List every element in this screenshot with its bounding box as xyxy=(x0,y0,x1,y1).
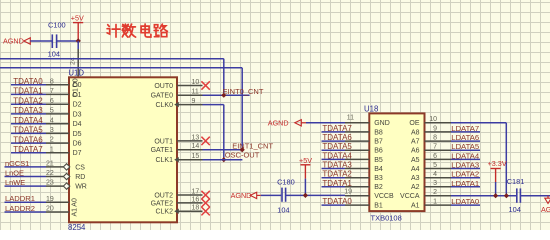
svg-text:A7: A7 xyxy=(411,139,420,146)
svg-text:B7: B7 xyxy=(374,139,383,146)
svg-text:4: 4 xyxy=(433,171,437,178)
svg-text:11: 11 xyxy=(192,89,199,96)
svg-text:D0: D0 xyxy=(73,78,80,87)
svg-text:D4: D4 xyxy=(73,121,82,128)
svg-text:D1: D1 xyxy=(73,88,80,97)
svg-text:VCCA: VCCA xyxy=(400,193,420,200)
svg-text:20: 20 xyxy=(46,206,54,213)
svg-text:EINT1_CNT: EINT1_CNT xyxy=(232,141,273,150)
power port +3.3V xyxy=(488,159,507,196)
svg-text:21: 21 xyxy=(46,161,54,168)
svg-text:3: 3 xyxy=(50,127,54,134)
svg-text:AGND: AGND xyxy=(541,205,550,214)
pin 19 (A0) with net label LADDR1 xyxy=(5,194,79,207)
wire net EINT1_CNT horizontal from left edge xyxy=(0,67,242,69)
pin 11 (GND) wire from AGND xyxy=(268,114,370,127)
wire net EINT1_CNT vertical down to GATE1 xyxy=(241,68,243,150)
svg-text:A1: A1 xyxy=(72,208,79,217)
wire CLK0 right then down to CLK1 xyxy=(203,105,224,160)
svg-text:19: 19 xyxy=(344,189,352,196)
svg-text:CLK0: CLK0 xyxy=(155,102,173,109)
pin (B2) with net label TDATA1 xyxy=(322,179,370,188)
svg-text:17: 17 xyxy=(192,188,200,195)
svg-text:U1D: U1D xyxy=(68,69,84,78)
svg-text:TDATA3: TDATA3 xyxy=(322,161,352,170)
svg-text:CLK1: CLK1 xyxy=(155,157,173,164)
wire +5V junction down to U1D pin 24 xyxy=(77,41,79,78)
junction at GATE1/EINT1_CNT xyxy=(240,147,245,152)
pin 4 (A3) with net label LDATA2 xyxy=(425,170,481,179)
svg-text:EINT0_CNT: EINT0_CNT xyxy=(223,87,264,96)
svg-text:10: 10 xyxy=(429,116,437,123)
svg-text:C100: C100 xyxy=(48,21,66,30)
svg-text:A5: A5 xyxy=(411,157,420,164)
pin 15 (CLK1) xyxy=(155,153,202,164)
svg-text:D3: D3 xyxy=(73,111,82,118)
svg-text:15: 15 xyxy=(192,153,200,160)
pin (B3) with net label TDATA2 xyxy=(322,170,370,179)
junction at C100/+5V/pin24 xyxy=(76,38,81,43)
svg-text:LDATA5: LDATA5 xyxy=(451,142,479,151)
svg-text:OUT0: OUT0 xyxy=(154,83,173,90)
net label EINT1_CNT xyxy=(232,141,273,150)
svg-text:TDATA2: TDATA2 xyxy=(322,170,352,179)
no-ERC marker on GATE2 xyxy=(201,199,209,207)
svg-text:104: 104 xyxy=(509,205,521,214)
pin 23 (WR, active low) with net label LnWE xyxy=(5,178,87,190)
svg-text:D5: D5 xyxy=(73,131,82,138)
pin 21 (CS, active low) with net label nGCS1 xyxy=(5,159,86,171)
pin (B1) with net label TDATA0 xyxy=(322,197,370,206)
pin (B5) with net label TDATA4 xyxy=(322,151,370,160)
svg-text:LADDR1: LADDR1 xyxy=(5,194,35,203)
pin 10 (OUT0) xyxy=(154,79,202,90)
svg-text:6: 6 xyxy=(50,98,54,105)
svg-text:22: 22 xyxy=(46,170,54,177)
svg-text:B2: B2 xyxy=(374,184,383,191)
svg-text:B5: B5 xyxy=(374,157,383,164)
svg-text:23: 23 xyxy=(46,180,54,187)
svg-text:VCCB: VCCB xyxy=(374,193,394,200)
svg-text:GATE1: GATE1 xyxy=(151,147,174,154)
pin (B7) with net label TDATA6 xyxy=(322,133,370,142)
svg-text:A8: A8 xyxy=(411,129,420,136)
svg-text:2: 2 xyxy=(50,137,54,144)
svg-text:LDATA7: LDATA7 xyxy=(451,124,479,133)
svg-text:RD: RD xyxy=(75,174,85,181)
designator U1D xyxy=(68,69,84,78)
wire C181 to right edge xyxy=(520,195,550,197)
net label EINT0_CNT xyxy=(223,87,264,96)
svg-text:GATE0: GATE0 xyxy=(151,93,174,100)
svg-text:TDATA4: TDATA4 xyxy=(13,116,43,125)
value 104 (C180) xyxy=(277,205,289,214)
no-ERC marker on CLK2 xyxy=(201,207,209,215)
pin 9 (CLK0) xyxy=(155,98,202,109)
power port AGND (top left) xyxy=(3,37,30,46)
svg-text:CLK2: CLK2 xyxy=(155,209,173,216)
power port AGND (middle) xyxy=(231,191,257,200)
label C181 xyxy=(507,177,525,186)
power port AGND (right edge, pointing down) xyxy=(541,196,550,214)
title text 计数电路 (red) xyxy=(107,24,167,37)
pin 3 (D5) with net label TDATA5 xyxy=(11,126,82,138)
pin 11 (GATE0) xyxy=(151,89,203,100)
svg-text:8254: 8254 xyxy=(68,223,86,230)
no-ERC marker on OUT1 xyxy=(201,137,209,145)
pin 6 (D2) with net label TDATA2 xyxy=(11,96,82,108)
svg-text:LDATA2: LDATA2 xyxy=(451,170,479,179)
svg-text:GND: GND xyxy=(374,120,390,127)
pin number 24 (vertical) xyxy=(70,57,77,65)
pin 9 (A8) with net label LDATA7 xyxy=(425,124,481,133)
svg-text:TDATA7: TDATA7 xyxy=(322,124,352,133)
svg-text:3: 3 xyxy=(433,180,437,187)
svg-text:14: 14 xyxy=(192,143,200,150)
pin 3 (A2) with net label LDATA1 xyxy=(425,179,481,188)
svg-text:U18: U18 xyxy=(364,105,378,114)
junction at GATE0/EINT0_CNT xyxy=(221,93,226,98)
svg-text:LnWE: LnWE xyxy=(5,178,25,187)
svg-text:TDATA2: TDATA2 xyxy=(13,96,43,105)
svg-text:19: 19 xyxy=(46,196,54,203)
wire GATE0 to EINT0_CNT xyxy=(203,94,250,96)
svg-text:LDATA4: LDATA4 xyxy=(451,151,480,160)
svg-text:A2: A2 xyxy=(411,184,420,191)
U18 pin names (right column) xyxy=(400,120,420,209)
capacitor C181 xyxy=(517,188,521,202)
designator U18 xyxy=(364,105,378,114)
svg-text:TXB0108: TXB0108 xyxy=(371,214,402,223)
svg-text:104: 104 xyxy=(277,205,289,214)
svg-text:TDATA5: TDATA5 xyxy=(13,126,43,135)
svg-text:1: 1 xyxy=(433,199,437,206)
svg-text:1: 1 xyxy=(50,146,54,153)
wire AGND to C100 xyxy=(30,40,52,42)
svg-text:AGND: AGND xyxy=(268,118,289,127)
pin 16 (GATE2) xyxy=(151,196,203,207)
junction +5V/VCCB rail xyxy=(303,193,308,198)
svg-text:+5V: +5V xyxy=(299,156,312,165)
capacitor C100 xyxy=(52,34,56,48)
svg-text:10: 10 xyxy=(192,79,200,86)
svg-text:9: 9 xyxy=(433,125,437,132)
svg-text:GATE2: GATE2 xyxy=(151,200,174,207)
svg-text:C181: C181 xyxy=(507,177,525,186)
pin 14 (GATE1) xyxy=(151,143,203,154)
pin 7 (D1) with net label TDATA1 xyxy=(11,87,82,99)
wire C100 to +5V junction xyxy=(57,40,79,42)
svg-text:LDATA0: LDATA0 xyxy=(451,197,479,206)
svg-text:+5V: +5V xyxy=(71,14,84,23)
pin (B4) with net label TDATA3 xyxy=(322,161,370,170)
svg-text:WR: WR xyxy=(75,184,87,191)
svg-text:B3: B3 xyxy=(374,175,383,182)
U18 pin names (left column) xyxy=(374,120,394,209)
svg-text:OE: OE xyxy=(409,120,419,127)
pin 17 (OUT2) xyxy=(154,188,202,199)
wire net EINT0_CNT vertical down to GATE0 xyxy=(223,59,225,95)
part number 8254 xyxy=(68,223,86,232)
pin 2 (D6) with net label TDATA6 xyxy=(11,135,82,147)
svg-text:2: 2 xyxy=(433,189,437,196)
svg-text:13: 13 xyxy=(192,134,200,141)
svg-text:TDATA4: TDATA4 xyxy=(322,151,352,160)
svg-text:104: 104 xyxy=(48,50,60,59)
wire AGND to C180 xyxy=(257,194,282,196)
value 104 (C100) xyxy=(48,50,60,59)
pin 5 (A4) with net label LDATA3 xyxy=(425,161,481,170)
IC U18 (TXB0108) body xyxy=(369,113,424,211)
svg-text:TDATA3: TDATA3 xyxy=(13,106,43,115)
svg-text:16: 16 xyxy=(192,196,200,203)
label C100 xyxy=(48,21,66,30)
svg-text:LDATA3: LDATA3 xyxy=(451,161,479,170)
junction OE/VCCA rail xyxy=(504,193,509,198)
power port +5V (top left) xyxy=(71,14,84,41)
pin 4 (D4) with net label TDATA4 xyxy=(11,116,82,128)
svg-text:LADDR2: LADDR2 xyxy=(5,204,35,213)
svg-text:8: 8 xyxy=(433,135,437,142)
pin 19 (VCCB) xyxy=(344,189,369,196)
svg-text:LDATA1: LDATA1 xyxy=(451,179,479,188)
svg-text:B6: B6 xyxy=(374,148,383,155)
svg-text:A3: A3 xyxy=(411,175,420,182)
svg-text:6: 6 xyxy=(433,153,437,160)
pin 13 (OUT1) xyxy=(154,134,202,145)
svg-text:7: 7 xyxy=(50,88,54,95)
svg-text:4: 4 xyxy=(50,117,54,124)
svg-text:8: 8 xyxy=(50,78,54,85)
svg-text:TDATA6: TDATA6 xyxy=(13,135,43,144)
svg-text:OUT1: OUT1 xyxy=(154,138,173,145)
pin 8 (D0) with net label TDATA0 xyxy=(11,77,82,89)
wire net EINT0_CNT horizontal from left edge xyxy=(0,58,224,60)
svg-text:A0: A0 xyxy=(72,198,79,207)
svg-text:B8: B8 xyxy=(374,129,383,136)
value 104 (C181) xyxy=(509,205,521,214)
pin 22 (RD, active low) with net label LnOE xyxy=(5,169,86,181)
svg-text:18: 18 xyxy=(192,205,200,212)
pin 8 (A7) with net label LDATA6 xyxy=(425,133,481,142)
svg-text:TDATA5: TDATA5 xyxy=(322,142,352,151)
pin 20 (A1) with net label LADDR2 xyxy=(5,204,79,217)
svg-text:AGND: AGND xyxy=(231,191,252,200)
net label OSC-OUT xyxy=(225,150,260,159)
op IC U1D (8254) body xyxy=(69,77,177,222)
svg-text:TDATA0: TDATA0 xyxy=(13,77,43,86)
svg-text:7: 7 xyxy=(433,144,437,151)
svg-text:D6: D6 xyxy=(73,141,82,148)
svg-text:LDATA6: LDATA6 xyxy=(451,133,479,142)
svg-text:A6: A6 xyxy=(411,148,420,155)
svg-text:5: 5 xyxy=(433,162,437,169)
no-ERC marker on OUT2 xyxy=(201,191,209,199)
svg-text:OUT2: OUT2 xyxy=(154,192,173,199)
svg-text:11: 11 xyxy=(347,114,354,121)
svg-text:A1: A1 xyxy=(411,203,420,210)
junction +3.3V/VCCA rail xyxy=(493,193,498,198)
svg-text:B1: B1 xyxy=(374,203,383,210)
svg-text:D7: D7 xyxy=(73,150,82,157)
svg-text:+3.3V: +3.3V xyxy=(488,159,507,168)
wire C180 to VCCB pin xyxy=(286,194,345,196)
wire GATE1 to EINT1_CNT xyxy=(203,149,243,151)
svg-text:CS: CS xyxy=(75,164,85,171)
svg-text:TDATA7: TDATA7 xyxy=(13,145,43,154)
svg-text:TDATA0: TDATA0 xyxy=(322,197,352,206)
svg-text:OSC-OUT: OSC-OUT xyxy=(225,150,260,159)
pin 7 (A6) with net label LDATA5 xyxy=(425,142,481,151)
pin 5 (D3) with net label TDATA3 xyxy=(11,106,82,118)
no-ERC marker on OUT0 xyxy=(201,81,209,89)
svg-text:D2: D2 xyxy=(73,102,82,109)
pin 10 (OE) wire to VCCA rail xyxy=(425,116,507,196)
svg-text:LnOE: LnOE xyxy=(5,169,24,178)
pin 18 (CLK2) xyxy=(155,205,202,216)
svg-text:AGND: AGND xyxy=(3,37,24,46)
power port +5V (middle) xyxy=(299,156,312,195)
svg-text:TDATA6: TDATA6 xyxy=(322,133,352,142)
pin (B6) with net label TDATA5 xyxy=(322,142,370,151)
svg-text:nGCS1: nGCS1 xyxy=(5,159,29,168)
svg-text:C180: C180 xyxy=(277,177,295,186)
part number TXB0108 xyxy=(371,214,402,223)
svg-text:TDATA1: TDATA1 xyxy=(13,87,43,96)
svg-text:5: 5 xyxy=(50,108,54,115)
svg-text:TDATA1: TDATA1 xyxy=(322,179,352,188)
pin 1 (D7) with net label TDATA7 xyxy=(11,145,82,157)
wire CLK1 to OSC-OUT xyxy=(203,159,243,161)
pin 1 (A1) with net label LDATA0 xyxy=(425,197,481,206)
svg-text:A4: A4 xyxy=(411,166,420,173)
capacitor C180 xyxy=(282,188,286,202)
junction at CLK1/OSC-OUT xyxy=(221,157,226,162)
label C180 xyxy=(277,177,295,186)
svg-text:9: 9 xyxy=(192,98,196,105)
svg-text:B4: B4 xyxy=(374,166,383,173)
pin 2 (VCCA) rail to +3.3V / C181 / AGND xyxy=(425,189,517,196)
pin 6 (A5) with net label LDATA4 xyxy=(425,151,481,160)
pin (B8) with net label TDATA7 xyxy=(322,124,370,133)
